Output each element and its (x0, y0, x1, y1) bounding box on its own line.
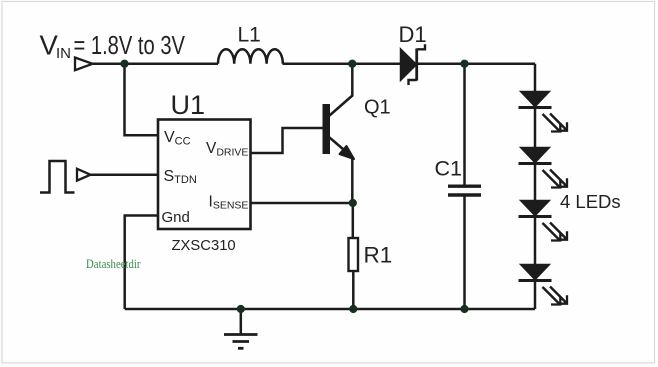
diode D1 (Schottky) (401, 49, 417, 81)
svg-text:D1: D1 (399, 22, 427, 47)
transistor Q1 emitter arrowhead (340, 146, 355, 159)
svg-text:U1: U1 (171, 90, 206, 120)
wire R1 bottom lead (352, 271, 355, 309)
svg-text:STDN: STDN (164, 168, 197, 186)
wire collector vertical (351, 64, 354, 96)
ground (224, 309, 258, 348)
wire Gnd branch (125, 216, 158, 310)
LED 4 (519, 264, 568, 304)
wire LED column top (534, 64, 537, 92)
inductor L1 (218, 49, 283, 64)
input port STDN (triangle) (77, 169, 91, 181)
svg-text:Datasheetdir: Datasheetdir (86, 257, 141, 271)
node ground junction (237, 305, 245, 313)
wire C1 top lead (463, 64, 466, 185)
input port Vin (triangle) (75, 58, 93, 71)
svg-text:= 1.8V to 3V: = 1.8V to 3V (74, 32, 186, 60)
wire emitter vertical (351, 157, 354, 203)
node C1 bottom junction (460, 305, 468, 313)
svg-text:ZXSC310: ZXSC310 (172, 238, 236, 254)
wire top rail mid (283, 62, 401, 65)
svg-text:4 LEDs: 4 LEDs (560, 191, 621, 212)
wire R1 top lead (352, 203, 355, 238)
svg-text:ISENSE: ISENSE (209, 194, 249, 212)
wire top rail left (92, 62, 218, 65)
wire Isense (251, 202, 353, 205)
wire STDN input (91, 173, 159, 176)
LED 3 (519, 200, 568, 240)
wire Vdrive to base (251, 128, 323, 153)
svg-text:Gnd: Gnd (162, 209, 190, 226)
svg-text:L1: L1 (238, 24, 261, 47)
transistor Q1 collector stroke (330, 95, 354, 116)
wire bottom rail (125, 308, 535, 311)
svg-text:Q1: Q1 (364, 97, 391, 119)
transistor Q1 base bar (323, 104, 331, 154)
wire LED column bottom (534, 279, 537, 309)
IC U1 box (158, 120, 251, 230)
LED 2 (519, 147, 568, 187)
wire Vcc branch (125, 64, 159, 136)
wire C1 bottom lead (463, 196, 466, 309)
LED 1 (519, 91, 568, 131)
svg-text:IN: IN (56, 45, 71, 62)
wire LED column segments (534, 106, 537, 148)
resistor R1 (349, 238, 359, 271)
node Isense junction (349, 199, 357, 207)
node collector junction (348, 60, 356, 68)
node D1-C1 junction (460, 60, 468, 68)
node Vin junction (120, 60, 128, 68)
node R1 bottom junction (349, 305, 357, 313)
pulse input symbol (40, 161, 75, 193)
svg-text:R1: R1 (364, 243, 393, 268)
svg-text:C1: C1 (435, 157, 462, 181)
wire top rail right (418, 62, 535, 65)
svg-text:VCC: VCC (164, 129, 191, 148)
svg-text:VDRIVE: VDRIVE (206, 140, 248, 159)
transistor Q1 emitter stroke (330, 138, 348, 153)
capacitor C1 (448, 184, 481, 187)
